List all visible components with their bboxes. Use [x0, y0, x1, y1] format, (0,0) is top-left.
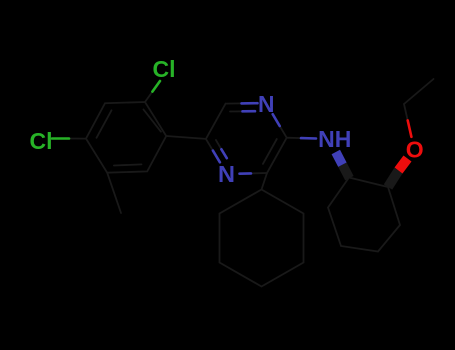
svg-text:NH: NH	[318, 126, 351, 152]
svg-text:Cl: Cl	[30, 128, 53, 154]
svg-text:N: N	[258, 91, 275, 117]
svg-text:Cl: Cl	[153, 56, 176, 82]
svg-text:O: O	[406, 137, 424, 163]
svg-text:N: N	[218, 161, 235, 187]
